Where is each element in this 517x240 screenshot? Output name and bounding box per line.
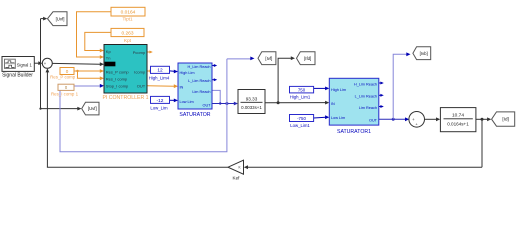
svg-text:Res_I comp 1: Res_I comp 1 — [51, 92, 79, 97]
svg-text:Res_I comp: Res_I comp — [106, 76, 128, 81]
svg-text:0.263: 0.263 — [121, 30, 133, 36]
svg-text:L_Lim Reach: L_Lim Reach — [188, 79, 210, 83]
svg-text:Lim Reach: Lim Reach — [359, 106, 377, 110]
svg-text:OUT: OUT — [137, 84, 146, 89]
svg-text:H_Lim Reach: H_Lim Reach — [187, 65, 210, 69]
svg-text:IN: IN — [331, 102, 335, 106]
svg-text:[Ivf]: [Ivf] — [265, 56, 272, 61]
svg-text:10.74: 10.74 — [452, 113, 464, 119]
svg-text:OUT: OUT — [369, 119, 378, 123]
svg-text:OUT: OUT — [202, 103, 211, 107]
svg-text:SATURATOR: SATURATOR — [179, 112, 210, 118]
svg-text:-750: -750 — [297, 116, 306, 121]
svg-text:Kpt: Kpt — [124, 38, 132, 43]
svg-text:0.0033s+1: 0.0033s+1 — [241, 105, 262, 110]
svg-text:Pcomp: Pcomp — [133, 50, 146, 55]
svg-text:Stop_I comp: Stop_I comp — [106, 84, 129, 89]
svg-text:H_Lim Reach: H_Lim Reach — [354, 82, 377, 86]
svg-text:Low Lim: Low Lim — [331, 116, 345, 120]
svg-text:0.0164s+1: 0.0164s+1 — [447, 122, 469, 127]
svg-text:[Uvf]: [Uvf] — [56, 16, 65, 21]
svg-text:Icomp: Icomp — [134, 70, 146, 75]
svg-text:Signal 1: Signal 1 — [17, 63, 33, 68]
svg-text:IN: IN — [180, 86, 184, 90]
svg-text:Low_Lim1: Low_Lim1 — [290, 123, 310, 128]
svg-text:Tipt1: Tipt1 — [122, 17, 132, 22]
svg-text:SATURATOR1: SATURATOR1 — [337, 129, 371, 135]
svg-text:0.0164: 0.0164 — [121, 10, 136, 16]
svg-text:Kef: Kef — [233, 176, 241, 181]
svg-text:0: 0 — [66, 69, 69, 74]
svg-text:12: 12 — [157, 68, 163, 74]
svg-text:Kp: Kp — [106, 49, 112, 54]
svg-text:High_Lim1: High_Lim1 — [290, 94, 311, 99]
svg-text:Lim Reach: Lim Reach — [192, 90, 210, 94]
svg-text:-12: -12 — [157, 98, 164, 104]
svg-text:Tn: Tn — [106, 56, 111, 61]
svg-text:[Uvf]: [Uvf] — [88, 106, 97, 111]
svg-text:High_Lim4: High_Lim4 — [149, 76, 170, 81]
svg-text:Signal Builder: Signal Builder — [2, 73, 33, 79]
svg-text:Low_Lim: Low_Lim — [150, 105, 168, 110]
svg-text:Res_P comp: Res_P comp — [106, 70, 130, 75]
svg-text:High Lim: High Lim — [180, 71, 195, 75]
svg-text:PI CONTROLLER 1: PI CONTROLLER 1 — [102, 95, 148, 101]
svg-text:[Id]: [Id] — [502, 117, 508, 122]
svg-text:[Ifd]: [Ifd] — [304, 56, 311, 61]
svg-text:[Ivb]: [Ivb] — [420, 51, 428, 56]
svg-text:Low Lim: Low Lim — [180, 100, 194, 104]
svg-text:93.33: 93.33 — [246, 96, 258, 101]
svg-text:Res_P comp 1: Res_P comp 1 — [50, 75, 79, 80]
svg-text:L_Lim Reach: L_Lim Reach — [355, 95, 377, 99]
svg-text:750: 750 — [298, 88, 306, 93]
svg-text:High Lim: High Lim — [331, 88, 346, 92]
